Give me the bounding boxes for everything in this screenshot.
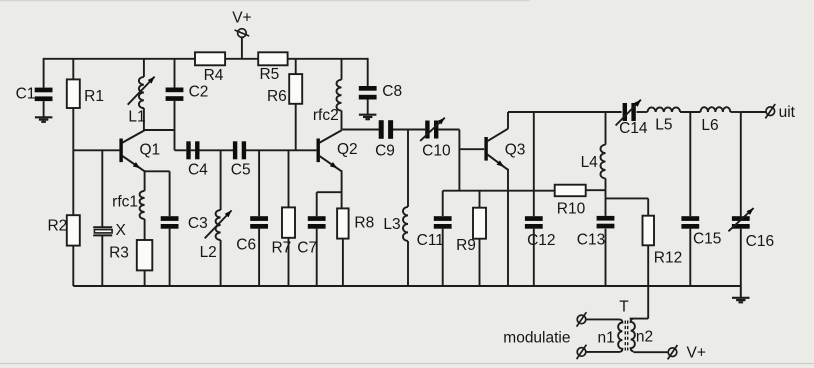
wire R9 bottom stub [479, 239, 481, 286]
wire C7 column top [316, 192, 318, 216]
wire L4 top stub [605, 112, 607, 145]
wire Q3 base wire [459, 148, 484, 150]
svg-text:V+: V+ [232, 9, 251, 26]
capacitor C2 [166, 88, 184, 101]
capacitor C7 [308, 216, 326, 229]
wire L1 bottom stub to collector node [143, 108, 145, 130]
svg-text:n2: n2 [636, 329, 653, 346]
svg-text:X: X [116, 222, 127, 239]
wire Q2 emitter down [341, 170, 343, 208]
svg-text:n1: n1 [597, 329, 614, 346]
svg-text:C10: C10 [422, 143, 451, 160]
svg-text:C9: C9 [375, 143, 395, 160]
svg-text:C15: C15 [693, 230, 721, 247]
wire R2 bottom stub [72, 246, 74, 286]
terminal uit (output) [765, 104, 775, 118]
capacitor C3 [161, 216, 179, 229]
wire X column top [101, 150, 103, 227]
svg-text:R7: R7 [271, 239, 291, 256]
capacitor C16 [732, 216, 750, 229]
crystal X [93, 227, 112, 235]
svg-text:R3: R3 [109, 245, 129, 262]
svg-text:C12: C12 [527, 232, 555, 249]
terminal modulatie upper [577, 312, 587, 326]
svg-text:uit: uit [779, 104, 796, 121]
resistor R1 [67, 79, 80, 108]
svg-text:R2: R2 [47, 218, 67, 235]
wire top rail right segment (R5 to C8 corner) [288, 58, 368, 60]
svg-text:Q2: Q2 [337, 141, 358, 158]
resistor R8 [337, 208, 349, 238]
svg-text:R8: R8 [354, 215, 374, 232]
wire Q3 collector riser [507, 112, 509, 129]
svg-text:L6: L6 [701, 117, 718, 134]
svg-text:L1: L1 [128, 109, 145, 126]
wire R8 bottom stub [342, 239, 344, 286]
terminal V+ supply [235, 29, 250, 38]
inductor L5 [648, 107, 681, 112]
svg-text:R12: R12 [654, 249, 682, 266]
transformer T core [625, 321, 627, 351]
terminal modulatie lower [577, 345, 587, 359]
wire L5 to L6 junction [680, 111, 700, 113]
svg-text:C3: C3 [188, 215, 208, 232]
wire Q1 collector node to C2 column [144, 129, 175, 131]
inductor L6 [701, 107, 731, 112]
svg-text:C1: C1 [16, 85, 36, 102]
wire n2 bottom lead to V+ terminal [633, 351, 668, 353]
resistor R7 [282, 207, 295, 237]
wire C2 top stub [174, 59, 176, 88]
svg-text:C14: C14 [619, 120, 648, 137]
wire C10 output column down to bias line [458, 130, 460, 191]
wire C11 column bottom [442, 229, 444, 286]
wire C12 column top [533, 112, 535, 216]
wire C6 column top [258, 150, 260, 216]
wire C1 column top [43, 58, 45, 88]
svg-text:L2: L2 [200, 244, 217, 261]
wire C11 column top corner [442, 191, 444, 217]
svg-text:Q1: Q1 [139, 141, 160, 158]
wire coupling line C5 to Q2 base [246, 149, 317, 151]
wire R12 top stub [647, 198, 649, 215]
wire C2 bottom to coupling line [174, 101, 176, 150]
svg-text:C8: C8 [382, 83, 402, 100]
capacitor C8 [359, 86, 377, 100]
wire L2 top stub [220, 150, 222, 210]
resistor R10 [555, 185, 586, 197]
wire C16 column [740, 112, 742, 216]
capacitor C4 [186, 141, 199, 159]
wire R9 top stub [479, 191, 481, 208]
svg-text:rfc2: rfc2 [313, 107, 339, 124]
wire rfc1 to R3 [144, 219, 146, 240]
wire Q3 bias line [443, 190, 555, 192]
wire top rail middle segment (R4 to R5) with V+ tap [225, 58, 258, 60]
svg-text:T: T [619, 298, 629, 315]
wire Q1 emitter jog to C3 [145, 170, 170, 172]
capacitor C13 [597, 216, 615, 229]
L1 tuning arrow [128, 77, 155, 105]
wire V+ terminal drop [241, 37, 243, 59]
svg-text:V+: V+ [687, 344, 706, 361]
transformer T winding n1 [618, 319, 622, 351]
svg-text:R9: R9 [456, 237, 476, 254]
capacitor C10 [425, 121, 438, 139]
ground main (bottom right) [732, 298, 750, 303]
wire R7 top stub [288, 150, 290, 207]
capacitor C6 [250, 216, 268, 229]
svg-text:C13: C13 [577, 232, 605, 249]
wire L1 top stub [143, 59, 145, 77]
wire C8 bottom stem to ground [367, 100, 369, 115]
resistor R6 [289, 74, 302, 104]
transistor Q1 [119, 130, 144, 171]
wire C9 to C10 with L3 tap [393, 129, 425, 131]
wire C15 column bottom [689, 229, 691, 286]
wire C3 column top [169, 171, 171, 216]
resistor R4 [195, 52, 225, 65]
wire R1 top stub [72, 59, 74, 80]
wire C12 column bottom [533, 229, 535, 286]
wire ground bus [73, 285, 741, 287]
inductor L4 [600, 145, 605, 179]
svg-text:C5: C5 [231, 162, 251, 179]
svg-text:Q3: Q3 [505, 141, 526, 158]
wire Q3 collector line to C14 [508, 111, 622, 113]
transistor Q3 [484, 129, 508, 170]
ground below C8 [359, 115, 377, 120]
C16 trimmer arrow [728, 208, 753, 231]
svg-text:L3: L3 [383, 216, 400, 233]
resistor R5 [258, 52, 287, 65]
wire R6 top stub [295, 59, 297, 74]
svg-text:C7: C7 [297, 239, 317, 256]
wire C13 bottom stub [605, 229, 607, 286]
wire L4 bottom to C13 [605, 178, 607, 216]
svg-text:R1: R1 [84, 88, 104, 105]
svg-text:R6: R6 [267, 88, 287, 105]
wire R6 bottom stub to coupling line [295, 104, 297, 151]
svg-text:C4: C4 [188, 162, 208, 179]
wire output junction to uit terminal [741, 111, 766, 113]
wire R1 bottom to base node [72, 108, 74, 150]
rf choke rfc2 [337, 80, 342, 111]
wire coupling line C4 to C5 [191, 149, 233, 151]
capacitor C5 [233, 141, 246, 159]
svg-text:modulatie: modulatie [503, 330, 570, 347]
svg-text:C2: C2 [189, 84, 209, 101]
wire C6 column bottom [258, 229, 260, 286]
wire C15 column [689, 112, 691, 216]
wire L3 bottom stub [407, 241, 409, 286]
svg-text:L4: L4 [581, 154, 599, 171]
wire rfc2 bottom to Q2 collector node [341, 111, 343, 130]
wire Q2 collector to C9 [342, 129, 380, 131]
rf choke rfc1 [140, 191, 145, 219]
resistor R12 [643, 216, 655, 246]
svg-text:C6: C6 [236, 237, 256, 254]
wire R2 top stub [72, 150, 74, 215]
wire ground bus to main ground symbol [740, 286, 742, 298]
wire C8 top stub [367, 58, 369, 86]
capacitor C12 [525, 216, 543, 229]
wire R12 to n2 top [630, 318, 649, 320]
wire R10 right wire [586, 189, 606, 191]
wire jog node M to R12 [606, 197, 649, 199]
svg-text:R4: R4 [204, 67, 224, 84]
capacitor C11 [434, 216, 452, 229]
wire C3 column bottom [169, 229, 171, 286]
wire L3 column [407, 130, 409, 207]
inductor L2 [216, 210, 221, 240]
wire L6 to C16 junction [730, 111, 741, 113]
capacitor C1 [35, 88, 53, 102]
wire C10 to corner [438, 129, 459, 131]
svg-text:C16: C16 [746, 233, 774, 250]
wire C14 to L5 [637, 111, 648, 113]
svg-text:R10: R10 [557, 201, 586, 218]
svg-text:L5: L5 [655, 117, 672, 134]
inductor L1 [139, 77, 144, 108]
C14 trimmer arrow [616, 100, 641, 126]
capacitor C15 [681, 216, 699, 229]
transformer T winding n2 [631, 319, 635, 352]
wire n1 bottom lead [586, 351, 620, 353]
svg-text:C11: C11 [417, 232, 444, 249]
capacitor C9 [379, 120, 393, 139]
inductor L3 [403, 207, 408, 241]
wire top rail left segment (C1 to R4) [44, 58, 195, 60]
transistor Q2 [317, 130, 342, 171]
wire X column bottom [101, 236, 103, 286]
L2 tuning arrow [205, 210, 232, 238]
wire R3 bottom stub [144, 270, 146, 286]
wire C7 column bottom [316, 229, 318, 286]
C10 trimmer arrow [420, 118, 445, 141]
wire Q2 emitter jog to C7 [317, 191, 342, 193]
wire Q3 emitter to ground bus [507, 169, 509, 286]
resistor R9 [473, 208, 486, 239]
wire coupling line C2col to C4 [175, 149, 187, 151]
capacitor C14 [623, 103, 636, 121]
wire C1 column bottom stem [43, 101, 45, 117]
resistor R2 [67, 215, 80, 245]
resistor R3 [137, 240, 153, 270]
wire rfc2 top stub [341, 59, 343, 80]
wire Q1 base wire [73, 149, 119, 151]
ground below C1 [35, 117, 53, 122]
wire L2 bottom stub [220, 240, 222, 286]
wire C16 column bottom [740, 229, 742, 286]
wire emitter to rfc1 [144, 170, 146, 191]
terminal V+ (transformer feed) [668, 345, 678, 359]
svg-text:rfc1: rfc1 [112, 194, 138, 211]
wire n1 top lead [586, 318, 620, 320]
svg-text:R5: R5 [259, 66, 279, 83]
wire R7 bottom stub [288, 238, 290, 286]
wire R12 bottom through bus to transformer [647, 245, 649, 318]
